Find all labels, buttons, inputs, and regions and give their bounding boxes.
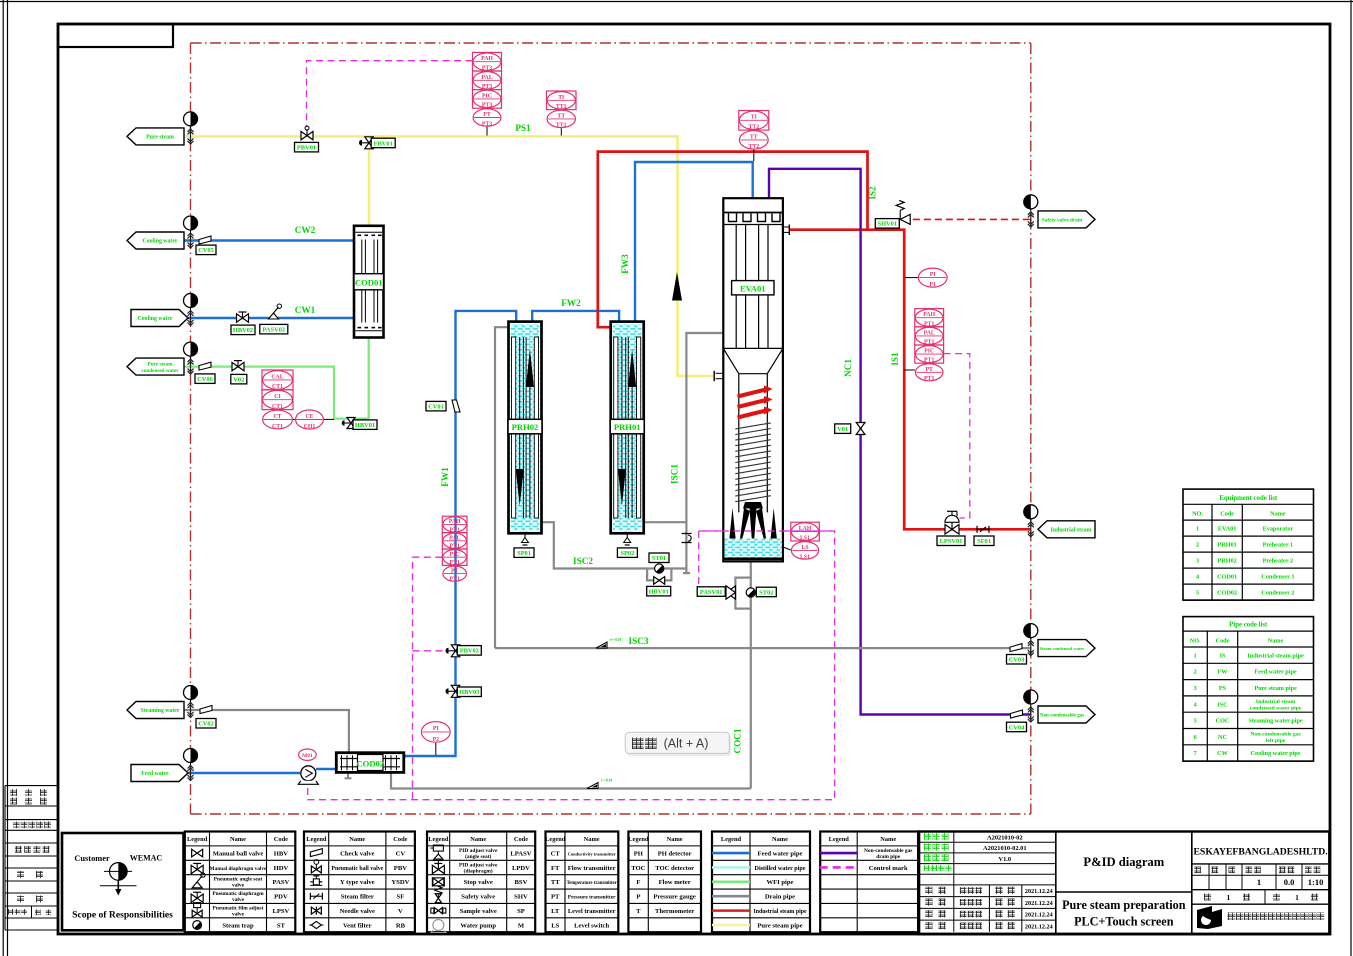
pipe pure steam condensed water (light green) — [184, 367, 369, 419]
svg-text:ST: ST — [277, 922, 286, 929]
svg-text:COD02: COD02 — [356, 758, 384, 768]
svg-text:Stop valve: Stop valve — [464, 879, 493, 886]
svg-text:Steaming water pipe: Steaming water pipe — [1248, 718, 1302, 725]
svg-text:PAL: PAL — [924, 330, 935, 336]
label CV03 — [1007, 655, 1027, 665]
valve HBV01b — [654, 577, 665, 585]
legend table 3 valves — [427, 832, 535, 933]
pipe CW2 cooling water (blue) — [184, 239, 355, 241]
svg-text:V1.0: V1.0 — [998, 856, 1011, 863]
svg-text:CT1: CT1 — [272, 404, 283, 410]
instrument stack IS1 PT1 — [915, 309, 944, 382]
marker CW2 — [184, 216, 198, 248]
svg-text:LS: LS — [802, 545, 809, 551]
svg-text:TI: TI — [751, 115, 758, 121]
marker CW1 — [184, 294, 198, 326]
COD01 outlet (light green) — [368, 338, 370, 419]
left margin strip — [5, 786, 58, 930]
label CV05 — [196, 245, 216, 255]
pipe industrial steam feed (red) — [598, 152, 868, 328]
evaporator EVA01 — [714, 198, 789, 561]
svg-text:CI: CI — [274, 394, 281, 400]
svg-text:COD01: COD01 — [355, 278, 383, 288]
lead TT1 — [560, 128, 562, 135]
label ISC1 — [670, 464, 680, 484]
svg-text:Name: Name — [470, 836, 486, 843]
svg-text:Customer: Customer — [74, 854, 110, 863]
yellow branch to COD01 — [368, 136, 371, 225]
svg-text:COC1: COC1 — [733, 728, 743, 753]
svg-text:Industrial steam: Industrial steam — [1051, 527, 1092, 533]
EVA01 bottom drain COC1 (gray) — [750, 561, 752, 788]
svg-text:M01: M01 — [302, 753, 313, 759]
instrument stack CT1 conductivity — [262, 370, 293, 430]
svg-text:TT1: TT1 — [556, 123, 567, 129]
pipe ISC1 (gray) — [683, 333, 723, 573]
red dashed safety relief line — [913, 218, 1031, 220]
flag Steaming water — [127, 702, 184, 719]
control IS1 PIC to LPSV01 — [944, 354, 970, 518]
svg-text:(Alt + A): (Alt + A) — [664, 737, 709, 751]
svg-text:Code: Code — [274, 836, 288, 843]
svg-text:ISC3: ISC3 — [629, 636, 649, 646]
svg-text:PAH: PAH — [923, 312, 935, 318]
instrument TI/TT1 — [547, 91, 577, 129]
svg-text:FW: FW — [1218, 669, 1229, 676]
svg-text:0.0: 0.0 — [1284, 877, 1295, 887]
svg-text:Temperature transmitter: Temperature transmitter — [567, 881, 617, 886]
marker Pure steam — [184, 112, 198, 144]
valve FBV01 — [359, 137, 373, 149]
svg-text:Pipe code list: Pipe code list — [1229, 622, 1268, 629]
instrument stack FW1 — [442, 516, 467, 582]
svg-text:PAH: PAH — [481, 56, 493, 62]
svg-text:PH: PH — [634, 850, 644, 857]
flag Industrial steam — [1038, 521, 1095, 538]
svg-text:CV03: CV03 — [1009, 657, 1025, 664]
label ISC3 — [629, 636, 649, 646]
flag Safety valve drain — [1038, 211, 1095, 228]
svg-text:Name: Name — [584, 836, 600, 843]
svg-text:Control mark: Control mark — [869, 865, 908, 872]
legend table 5 detectors — [628, 832, 701, 933]
svg-text:Feed water pipe: Feed water pipe — [1255, 669, 1297, 676]
svg-text:PS1: PS1 — [515, 123, 531, 133]
svg-text:ST02: ST02 — [759, 589, 773, 596]
svg-text:CT: CT — [551, 850, 561, 857]
svg-text:SF01: SF01 — [977, 538, 991, 545]
svg-text:PT1: PT1 — [924, 376, 934, 382]
svg-text:Safety valve drain: Safety valve drain — [1042, 218, 1082, 224]
label PASV01 — [697, 587, 725, 597]
svg-text:CT1: CT1 — [272, 424, 283, 430]
svg-text:TT: TT — [551, 879, 560, 886]
svg-text:Legend: Legend — [628, 836, 649, 843]
svg-text:TT: TT — [557, 113, 565, 119]
svg-text:IS2: IS2 — [868, 186, 878, 200]
svg-text:PASV: PASV — [273, 879, 290, 886]
svg-text:Flow transmitter: Flow transmitter — [568, 865, 616, 872]
flow arrow on PS1 — [672, 272, 682, 301]
svg-text:left pipe: left pipe — [1266, 738, 1286, 744]
svg-text:PT: PT — [925, 367, 933, 373]
svg-text:Preheater 2: Preheater 2 — [1263, 557, 1294, 564]
svg-text:Name: Name — [230, 836, 246, 843]
pump M01 — [298, 766, 318, 785]
motor bubble M01 — [299, 749, 317, 760]
svg-text:T: T — [636, 908, 641, 915]
svg-text:A2021010-02: A2021010-02 — [987, 834, 1023, 841]
svg-text:NC: NC — [1218, 734, 1227, 741]
svg-text:Legend: Legend — [829, 836, 850, 843]
control to PASV01 — [699, 531, 722, 593]
lead LS1 — [783, 547, 791, 550]
svg-text:Name: Name — [667, 836, 683, 843]
flag Feed water — [131, 765, 188, 782]
label CV06 — [195, 374, 215, 384]
svg-text:PBV01: PBV01 — [297, 145, 316, 152]
label CW2 — [295, 225, 316, 235]
pipe CW1 cooling water (blue) — [184, 317, 355, 319]
svg-text:TOC detector: TOC detector — [655, 865, 694, 872]
marker PSC — [184, 342, 198, 374]
ISC2 trap bypass loop (gray) — [647, 569, 671, 581]
label HBV02 — [231, 325, 255, 335]
label PS1 — [515, 123, 531, 133]
flag Non-condensable gas — [1038, 706, 1095, 723]
valve LPSV01 — [945, 511, 959, 534]
svg-text:Scope of Responsibilities: Scope of Responsibilities — [72, 910, 173, 921]
svg-text:Water pump: Water pump — [460, 922, 496, 929]
svg-text:Feed water pipe: Feed water pipe — [758, 850, 803, 857]
svg-text:FW2: FW2 — [561, 298, 581, 308]
legend table 4 transmitters — [545, 832, 618, 933]
equipment code list table — [1183, 489, 1314, 600]
legend table 2 valves — [304, 832, 415, 933]
steam trap ST01 — [655, 564, 664, 573]
svg-text:P: P — [636, 894, 640, 901]
svg-text:Industrial steam pipe: Industrial steam pipe — [753, 909, 807, 915]
svg-text:M: M — [518, 922, 525, 929]
svg-text:LPDV: LPDV — [512, 865, 530, 872]
label ST01 — [649, 553, 669, 563]
svg-text:Legend: Legend — [721, 836, 742, 843]
svg-text:FBV01: FBV01 — [374, 140, 393, 147]
svg-text:SP01: SP01 — [517, 550, 531, 557]
marker Steaming — [184, 686, 198, 718]
pipe ISC2 (gray) — [541, 522, 686, 568]
svg-text:PAH: PAH — [449, 519, 461, 525]
svg-text:Check valve: Check valve — [340, 850, 374, 857]
svg-text:COD02: COD02 — [1217, 589, 1237, 596]
svg-text:condensed water pipe: condensed water pipe — [1250, 706, 1302, 712]
union on ISC1 — [682, 534, 692, 543]
svg-text:ST01: ST01 — [652, 555, 666, 562]
pipe NC1 non-condensable gas (purple) — [769, 169, 1031, 715]
battery limit boundary (dash-dot) — [191, 43, 1031, 814]
legend table 7 pipe colors 2 — [820, 832, 920, 933]
svg-text:TT2: TT2 — [748, 125, 759, 131]
svg-text:SF: SF — [397, 894, 405, 901]
control line FW1 PIC loop — [413, 557, 447, 800]
svg-text:1: 1 — [1227, 893, 1231, 902]
svg-text:PS: PS — [1219, 685, 1227, 692]
svg-text:2: 2 — [1194, 669, 1197, 676]
COD02 top stub drain (gray) — [345, 772, 352, 778]
svg-text:Cooling water pipe: Cooling water pipe — [1251, 750, 1301, 757]
svg-text:Name: Name — [880, 836, 896, 843]
svg-text:PT: PT — [451, 568, 459, 574]
lead PI/P1 — [905, 277, 918, 279]
svg-text:Code: Code — [1216, 638, 1230, 645]
svg-text:Steam condensed water: Steam condensed water — [1040, 646, 1085, 651]
svg-text:Level transmitter: Level transmitter — [568, 908, 616, 915]
svg-text:2021.12.24: 2021.12.24 — [1025, 912, 1053, 919]
svg-text:COD01: COD01 — [1217, 573, 1237, 580]
svg-text:PBV: PBV — [394, 865, 407, 872]
preheater PRH01 — [610, 322, 644, 534]
svg-text:YSDV: YSDV — [391, 879, 409, 886]
svg-text:PASV01: PASV01 — [700, 589, 723, 596]
svg-text:CV: CV — [396, 850, 406, 857]
label SF01 — [974, 536, 994, 546]
label NC1 — [843, 359, 853, 377]
flag Pure steam condensed water — [127, 358, 184, 375]
svg-text:Legend: Legend — [306, 836, 327, 843]
COD02 drain (gray) — [391, 772, 751, 788]
label SHV01 — [875, 219, 899, 229]
instrument PI/P2 — [421, 722, 450, 743]
svg-text:TT2: TT2 — [748, 144, 759, 150]
svg-text:Manual diaphragm valve: Manual diaphragm valve — [210, 866, 267, 872]
slope mark ISC3 — [596, 638, 622, 648]
pipe FW2 (blue) — [532, 311, 619, 322]
label HBV01a — [353, 420, 377, 430]
svg-text:(diaphragm): (diaphragm) — [464, 867, 493, 874]
svg-text:Pure steam: Pure steam — [146, 135, 174, 141]
svg-text:Name: Name — [772, 836, 788, 843]
label SP01 — [514, 548, 534, 558]
svg-text:V02: V02 — [233, 377, 244, 384]
svg-text:TOC: TOC — [631, 865, 645, 872]
instrument CE/CH1 — [296, 410, 324, 430]
svg-text:LPSV: LPSV — [272, 908, 289, 915]
label IS1 — [890, 352, 900, 366]
control line crossing EVA01 — [699, 530, 835, 532]
marker Feed — [184, 749, 198, 781]
svg-text:V: V — [398, 908, 403, 915]
label ISC2 — [573, 556, 593, 566]
marker SVD — [1024, 195, 1038, 227]
svg-text:LPSV01: LPSV01 — [940, 538, 963, 545]
control line to PBV01 — [307, 61, 473, 127]
svg-text:HDV: HDV — [274, 865, 289, 872]
leads CT1-CE — [293, 418, 334, 420]
svg-text:Manual ball valve: Manual ball valve — [213, 850, 264, 857]
svg-text:V01: V01 — [837, 426, 848, 433]
svg-text:PDV: PDV — [274, 894, 288, 901]
svg-text:PI: PI — [930, 272, 937, 278]
svg-text:CV04: CV04 — [1009, 724, 1025, 731]
label CV01 — [426, 401, 446, 411]
flag Cooling water out — [127, 232, 184, 249]
svg-text:PT3: PT3 — [482, 103, 492, 109]
svg-text:valve: valve — [232, 897, 245, 903]
svg-text:Needle valve: Needle valve — [340, 908, 375, 915]
svg-text:Conductivity transmitter: Conductivity transmitter — [568, 851, 616, 856]
svg-text:Condenser 1: Condenser 1 — [1261, 573, 1294, 580]
svg-text:4: 4 — [1194, 701, 1197, 708]
svg-text:ISC2: ISC2 — [573, 556, 593, 566]
svg-text:IS1: IS1 — [890, 352, 900, 366]
svg-text:CH1: CH1 — [304, 424, 316, 430]
svg-text:PLC+Touch screen: PLC+Touch screen — [1074, 915, 1174, 929]
svg-text:Non-condensable gas: Non-condensable gas — [1040, 714, 1084, 719]
svg-text:Code: Code — [514, 836, 528, 843]
svg-text:PRH02: PRH02 — [1218, 557, 1237, 564]
svg-text:1: 1 — [1257, 877, 1261, 887]
label FW3 — [620, 254, 630, 274]
label FBV01 — [371, 138, 395, 148]
flag Steam condensed water — [1038, 640, 1095, 657]
svg-text:CAL: CAL — [271, 374, 283, 380]
label HBV03 — [457, 687, 481, 697]
valve CV04 — [1011, 710, 1023, 718]
valve PASV01 — [726, 586, 735, 599]
svg-text:Pneumatic ball valve: Pneumatic ball valve — [331, 866, 383, 872]
svg-text:PT1: PT1 — [449, 560, 459, 566]
svg-text:Cooling water: Cooling water — [138, 316, 173, 322]
svg-text:7: 7 — [1194, 750, 1197, 757]
svg-text:4: 4 — [1196, 573, 1199, 580]
svg-text:condensed water: condensed water — [141, 368, 179, 374]
valve PBV01 — [301, 126, 313, 140]
svg-text:1:10: 1:10 — [1308, 877, 1324, 887]
svg-text:LS1: LS1 — [800, 535, 810, 541]
PRH01 drain to ISC1 (gray) — [644, 521, 687, 523]
svg-text:F: F — [636, 879, 640, 886]
svg-text:drain pipe: drain pipe — [876, 854, 900, 860]
label CV02 — [196, 719, 216, 729]
flag Pure steam — [127, 128, 184, 145]
svg-text:Non-condensable gas: Non-condensable gas — [1250, 732, 1301, 738]
label SP02 — [617, 548, 637, 558]
svg-text:Legend: Legend — [428, 836, 449, 843]
label PASV02 — [260, 324, 288, 334]
svg-text:Pressure transmitter: Pressure transmitter — [568, 895, 616, 901]
svg-text:RB: RB — [396, 922, 406, 929]
control bus bottom — [308, 531, 835, 800]
svg-text:HBV: HBV — [274, 850, 289, 857]
svg-text:WEMAC: WEMAC — [130, 854, 163, 863]
label PBV01 — [295, 142, 319, 152]
svg-text:5: 5 — [1194, 718, 1197, 725]
lead IS1 stack — [904, 369, 915, 371]
svg-text:HBV01: HBV01 — [649, 588, 669, 595]
valve CV02 — [200, 706, 212, 714]
svg-text:A2021010-02.01: A2021010-02.01 — [983, 845, 1027, 852]
svg-text:IS: IS — [1220, 652, 1226, 659]
svg-text:CV06: CV06 — [197, 376, 213, 383]
legend block: customer scope — [62, 833, 184, 930]
svg-text:LS: LS — [551, 922, 559, 929]
svg-text:i=+0.01: i=+0.01 — [601, 779, 613, 783]
instrument LAH/LS1 level — [791, 522, 820, 560]
valve HBV01a — [342, 418, 355, 429]
svg-text:PAL: PAL — [449, 535, 460, 541]
pipe FW3 (blue) — [635, 162, 753, 322]
label IS2 — [868, 186, 878, 200]
pipe FW1 riser (blue) — [404, 311, 516, 756]
valve CV03 — [1010, 644, 1022, 652]
lead PT3 — [486, 127, 488, 136]
valve V02 — [232, 361, 244, 371]
svg-text:EVA01: EVA01 — [740, 283, 766, 293]
PASV01 bypass loop (gray) — [735, 578, 750, 609]
svg-text:SP: SP — [517, 908, 525, 915]
svg-text:1: 1 — [1194, 652, 1197, 659]
svg-text:Distilled water pipe: Distilled water pipe — [755, 866, 806, 872]
svg-text:PI: PI — [433, 726, 440, 732]
svg-text:Safety valve: Safety valve — [461, 894, 495, 901]
label COC1 — [733, 728, 743, 753]
svg-text:SP02: SP02 — [620, 550, 634, 557]
valve V01 — [856, 423, 865, 435]
marker SCW — [1024, 624, 1038, 656]
svg-text:CV02: CV02 — [198, 721, 214, 728]
svg-text:CW: CW — [1217, 750, 1228, 757]
filter SF01 — [977, 526, 989, 533]
svg-text:PT: PT — [551, 894, 560, 901]
condenser COD01 — [354, 226, 384, 338]
svg-text:Steaming water: Steaming water — [141, 708, 180, 714]
svg-text:Drain pipe: Drain pipe — [765, 894, 795, 901]
lead PI/P2 — [435, 743, 437, 755]
svg-text:PRH01: PRH01 — [614, 422, 641, 432]
label CV04 — [1007, 722, 1027, 732]
legend table 1 valves — [185, 832, 295, 933]
svg-text:NC1: NC1 — [843, 359, 853, 377]
label V02 — [231, 374, 247, 384]
svg-text:BSV: BSV — [515, 879, 528, 886]
svg-text:FW3: FW3 — [620, 254, 630, 274]
svg-text:PIC: PIC — [924, 349, 934, 355]
pipe PS1 pure steam (yellow) — [184, 136, 714, 376]
svg-text:FT: FT — [551, 865, 560, 872]
svg-text:Name: Name — [1268, 638, 1284, 645]
svg-text:SHV01: SHV01 — [878, 221, 898, 228]
svg-text:WFI pipe: WFI pipe — [767, 879, 794, 886]
svg-text:Steam filter: Steam filter — [341, 894, 374, 901]
valve PASV02 — [269, 304, 282, 319]
svg-text:2: 2 — [1196, 541, 1199, 548]
svg-text:PBV02: PBV02 — [460, 648, 479, 655]
pipe ISC3 drain (gray) — [495, 647, 1031, 649]
lead TT2 — [753, 150, 755, 161]
label FW1 — [440, 467, 450, 487]
svg-text:Legend: Legend — [187, 836, 208, 843]
svg-text:5: 5 — [1196, 589, 1199, 596]
condenser COD02 — [336, 753, 404, 773]
svg-text:Name: Name — [1270, 511, 1286, 518]
svg-text:NO.: NO. — [1192, 511, 1203, 518]
pipe code list table — [1183, 617, 1314, 762]
slope mark drain — [587, 779, 613, 789]
svg-text:PRH02: PRH02 — [512, 422, 539, 432]
svg-text:Industrial steam: Industrial steam — [1256, 699, 1296, 705]
preheater PRH02 — [508, 322, 542, 534]
marker NCG — [1024, 690, 1038, 722]
